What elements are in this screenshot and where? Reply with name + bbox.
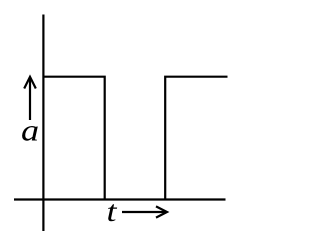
svg-text:t: t <box>107 196 118 228</box>
time arrow head <box>156 206 167 217</box>
time arrow (right arrow shaft) <box>122 211 165 213</box>
vertical axis (amplitude axis) <box>42 15 44 232</box>
amplitude arrow head <box>24 77 36 89</box>
amplitude arrow (up arrow shaft) <box>29 79 31 121</box>
label a (amplitude) <box>21 114 39 148</box>
horizontal axis (time axis) <box>14 198 226 200</box>
square wave pulse 1 (high segment with falling edge) <box>43 77 104 200</box>
label t (time) <box>107 196 118 228</box>
svg-text:a: a <box>21 114 39 148</box>
square wave pulse 2 (rising edge with high segment) <box>165 77 227 200</box>
